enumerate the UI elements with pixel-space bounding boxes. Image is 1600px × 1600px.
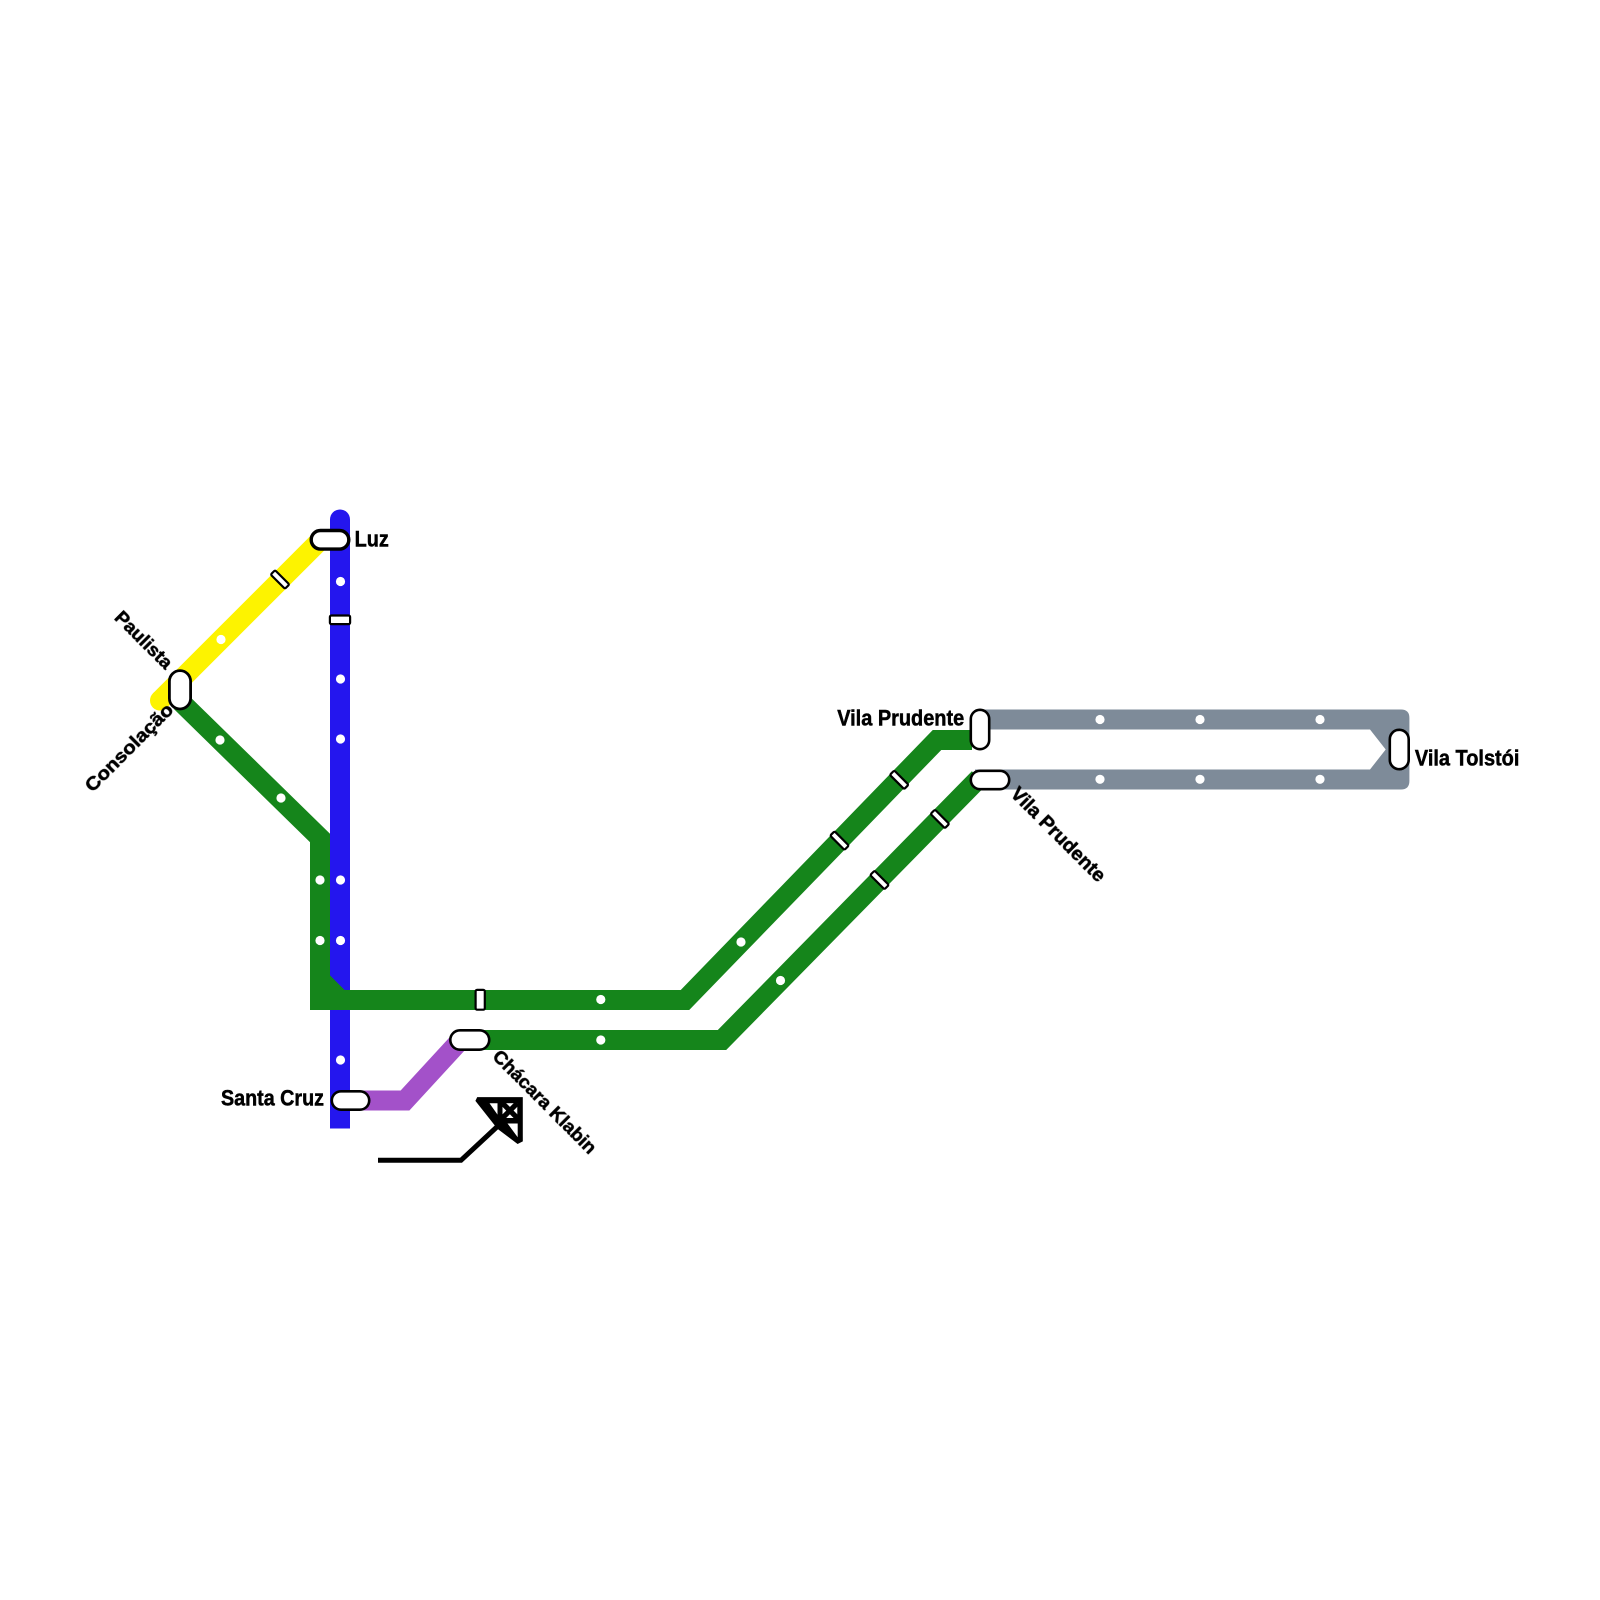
tick on green lower diagonal 1	[931, 810, 950, 829]
green vertical station dot y940	[315, 936, 324, 945]
svg-text:Vila Prudente: Vila Prudente	[837, 705, 964, 730]
gray station dot upper 2	[1195, 715, 1204, 724]
green diag station dot lower	[276, 793, 285, 802]
station pill Luz	[311, 531, 349, 550]
gray line (Line 15) loop Vila Prudente - Vila Tolstoi	[975, 710, 1409, 790]
green vertical station dot y880	[315, 875, 324, 884]
green lower diagonal station dot	[776, 976, 785, 985]
station pill Chacara Klabin	[450, 1030, 489, 1049]
north arrow head checker square	[503, 1103, 518, 1118]
blue station dot y940	[336, 936, 345, 945]
north arrow head white triangle upper-left	[490, 1103, 498, 1114]
yellow line (Line 4) Luz to Paulista	[160, 538, 323, 701]
north arrow shaft	[378, 1125, 500, 1161]
blue station dot y1060	[336, 1055, 345, 1064]
north arrow head checker X stroke 1	[503, 1103, 518, 1118]
gray station dot upper 3	[1315, 715, 1324, 724]
tick on green upper diagonal 2	[830, 831, 849, 850]
svg-text:Vila Tolstói: Vila Tolstói	[1415, 746, 1520, 771]
north arrow head silhouette	[475, 1097, 522, 1144]
green upper diagonal station dot	[736, 937, 745, 946]
tick on green lower diagonal 2	[870, 871, 889, 890]
green line (Line 2) lower branch	[460, 778, 979, 1040]
svg-text:Santa Cruz: Santa Cruz	[221, 1086, 324, 1111]
blue station dot y739	[336, 734, 345, 743]
north arrow head checker X stroke 2	[503, 1103, 518, 1118]
north arrow head white triangle bottom-right	[508, 1124, 518, 1138]
tick on green upper horizontal	[476, 990, 485, 1010]
blue station dot y880	[336, 875, 345, 884]
blue line rounded top cap	[330, 510, 350, 530]
tick on yellow line	[271, 570, 290, 589]
green lower horizontal station dot	[596, 1035, 605, 1044]
green chamfer patch over blue	[330, 975, 345, 990]
green diag station dot upper	[215, 735, 224, 744]
station pill Vila Prudente lower	[971, 771, 1009, 789]
gray station dot lower 2	[1195, 775, 1204, 784]
station pill Vila Tolstoi	[1390, 730, 1409, 769]
station pill Vila Prudente upper	[971, 710, 989, 749]
tick on green upper diagonal 1	[890, 770, 909, 789]
gray station dot lower 3	[1315, 775, 1324, 784]
gray station dot lower 1	[1095, 775, 1104, 784]
yellow station dot	[216, 635, 225, 644]
station pill Paulista/Consolacao	[169, 671, 190, 709]
station pill Santa Cruz	[332, 1091, 369, 1109]
blue station dot y581	[336, 577, 345, 586]
gray station dot upper 1	[1095, 715, 1104, 724]
blue line (Line 1) vertical	[330, 520, 350, 1129]
green upper horizontal station dot	[596, 995, 605, 1004]
svg-text:Luz: Luz	[355, 527, 389, 552]
tick on blue line	[330, 616, 350, 625]
purple line (Line 5) Santa Cruz to Chacara Klabin	[352, 1044, 457, 1101]
yellow line rounded end cap	[150, 691, 170, 711]
green line (Line 2) upper branch	[181, 702, 972, 1000]
blue station dot y679	[336, 674, 345, 683]
